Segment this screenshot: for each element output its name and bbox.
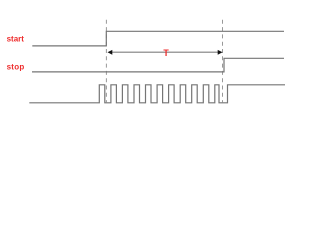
svg-text:stop: stop (7, 62, 25, 71)
svg-text:start: start (7, 34, 25, 43)
svg-text:T: T (163, 48, 169, 58)
